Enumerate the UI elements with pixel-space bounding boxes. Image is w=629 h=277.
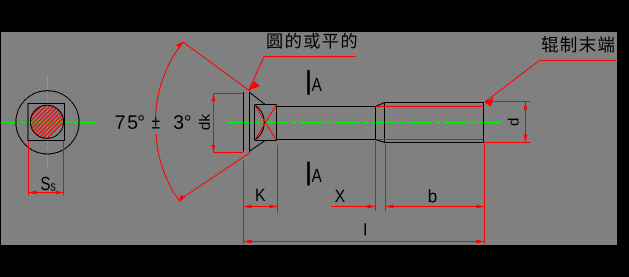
dimension Ss line with arrows <box>29 192 64 194</box>
label l <box>364 223 365 235</box>
runout chamfer bottom <box>376 140 385 143</box>
label Ss <box>41 177 50 190</box>
leader rolled-end arrow <box>485 98 495 107</box>
section mark A top <box>307 70 310 95</box>
shank bottom line <box>277 139 376 141</box>
shank top line <box>277 106 376 108</box>
label round-or-flat (Chinese) <box>267 33 356 49</box>
dimension X line <box>332 206 376 208</box>
cone top edge <box>250 92 265 104</box>
dimension dk line <box>213 94 215 153</box>
dimension K line <box>244 206 278 208</box>
thread minor bottom line <box>377 139 484 141</box>
thread major top line <box>385 102 484 104</box>
leader round-or-flat arrow <box>249 81 260 91</box>
label b <box>429 189 437 202</box>
thread end vertical <box>483 103 485 143</box>
label d (rotated) <box>508 119 519 126</box>
label dk (rotated) <box>199 114 210 130</box>
dimension dk extension lines <box>214 93 244 95</box>
arc arrowhead bottom <box>179 195 185 203</box>
dimension l line <box>244 241 485 243</box>
dimension K extension line right <box>277 145 279 213</box>
node left-view green vertical centerline <box>47 75 49 169</box>
section mark A bottom <box>307 162 310 186</box>
label K <box>256 189 265 201</box>
angle leg top <box>183 42 250 91</box>
dimension Ss extension lines <box>28 141 30 196</box>
node left-view green horizontal centerline <box>2 122 97 124</box>
label 75 deg <box>116 115 144 129</box>
angle leg bottom <box>179 152 251 200</box>
square neck rectangle <box>255 105 277 141</box>
cone-square intersection arc <box>255 105 265 140</box>
head flat face (two vertical lines) <box>243 92 245 151</box>
cone bottom edge <box>250 141 265 151</box>
dimension d extension lines <box>485 101 531 103</box>
main axis green centerline <box>227 122 501 124</box>
dimension d line <box>525 102 527 143</box>
dimension b line <box>386 206 485 208</box>
label rolled-end (Chinese) <box>542 36 614 52</box>
square neck outline (end view) <box>28 104 64 141</box>
label X <box>335 190 345 202</box>
neck X diagonal 2 <box>255 105 277 141</box>
thread runout vertical <box>375 107 377 140</box>
neck X diagonal 1 <box>255 105 277 141</box>
dimension b extension line left <box>385 144 387 212</box>
head outer circle (end view) <box>16 91 79 154</box>
dimension K extension line left <box>243 161 245 245</box>
dimension X extension line <box>375 141 377 212</box>
dimension l right extension line <box>484 144 486 245</box>
shank circle hatched (end view) <box>18 85 78 147</box>
thread minor top line <box>377 106 484 108</box>
thread major bottom line <box>385 142 484 144</box>
arc arrowhead top <box>176 42 183 49</box>
runout chamfer top <box>376 103 385 107</box>
thread start vertical <box>384 103 386 143</box>
75 deg angle dimension arc <box>156 42 184 126</box>
